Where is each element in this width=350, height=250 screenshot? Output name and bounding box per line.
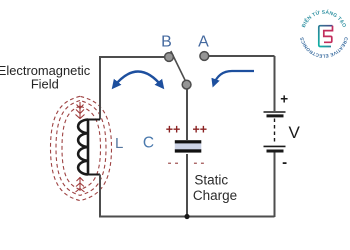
battery V cell 2 short plate — [267, 150, 284, 153]
wire capacitor to bottom — [186, 154, 188, 216]
switch pole — [182, 80, 191, 89]
field arrows top — [76, 102, 85, 119]
switch terminal B — [165, 53, 174, 62]
svg-text:+: + — [280, 92, 288, 107]
capacitor C fill — [175, 143, 202, 150]
wire bottom horizontal — [99, 216, 275, 218]
wire right vertical upper — [274, 56, 276, 111]
svg-text:Charge: Charge — [193, 188, 237, 203]
junction node — [184, 214, 189, 219]
field line ellipse inner — [62, 106, 101, 190]
field line ellipse middle — [56, 101, 106, 196]
svg-text:++: ++ — [166, 123, 181, 137]
svg-text:A: A — [198, 33, 209, 50]
svg-text:Field: Field — [31, 77, 59, 92]
svg-text:++: ++ — [192, 123, 207, 137]
wire top-right horizontal — [209, 55, 275, 57]
svg-text:Static: Static — [194, 172, 228, 187]
arrow double-headed left — [114, 72, 163, 88]
wire coil bottom stub — [88, 174, 100, 176]
svg-text:-: - — [282, 154, 287, 171]
wire left vertical lower — [99, 175, 101, 218]
svg-text:L: L — [115, 135, 123, 152]
logo glyph bracket — [319, 26, 333, 47]
svg-text:B: B — [161, 33, 172, 50]
arrow right curved — [214, 71, 255, 85]
svg-text:- -: - - — [168, 157, 179, 169]
svg-text:- -: - - — [193, 157, 204, 169]
battery internal dashed link — [274, 119, 276, 145]
logo Creative Electronics — [299, 9, 348, 59]
switch blade — [171, 51, 186, 83]
wire left vertical upper — [99, 56, 101, 120]
battery V cell 1 long plate — [264, 111, 286, 113]
capacitor C bottom plate — [175, 149, 202, 152]
field arrows bottom — [76, 177, 85, 192]
svg-text:V: V — [289, 123, 301, 142]
battery V cell 2 long plate — [264, 145, 286, 147]
svg-text:C: C — [143, 135, 154, 152]
wire top-left horizontal — [99, 56, 165, 58]
svg-text:CREATIVE ELECTRONICS: CREATIVE ELECTRONICS — [299, 37, 348, 59]
switch terminal A — [200, 52, 209, 61]
wire right vertical lower — [274, 152, 276, 217]
wire switch pole to capacitor — [186, 89, 188, 140]
logo glyph five — [324, 26, 333, 43]
wire coil top stub — [88, 119, 100, 121]
battery V cell 1 short plate — [267, 114, 284, 117]
field line ellipse outer — [51, 96, 112, 200]
inductor L coil — [78, 120, 88, 175]
capacitor C top plate — [175, 140, 202, 143]
